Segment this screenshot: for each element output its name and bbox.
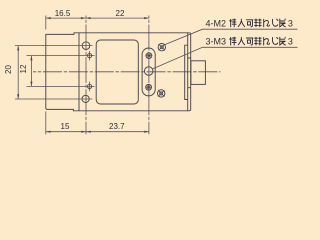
svg-text:12: 12 xyxy=(19,64,28,73)
rear panel seam xyxy=(78,33,80,111)
12 extension bottom xyxy=(27,85,95,87)
svg-text:3-M3: 3-M3 xyxy=(206,37,227,47)
flange ticks xyxy=(188,58,191,88)
svg-text:3: 3 xyxy=(288,19,293,29)
note line1 kanji: 挿入可能ねじ長 xyxy=(230,19,293,29)
bottom dimension line xyxy=(46,131,149,133)
top dimension line xyxy=(46,17,149,19)
obround plate xyxy=(142,48,155,96)
obround hole top xyxy=(146,53,152,59)
body outline xyxy=(46,33,191,111)
leader 3-M3 xyxy=(153,47,298,69)
boss rounded rect xyxy=(96,40,138,104)
body right face seam xyxy=(187,33,189,111)
svg-text:15: 15 xyxy=(61,122,70,131)
face hole A1 xyxy=(82,42,90,50)
horizontal center line xyxy=(33,71,221,73)
svg-text:23.7: 23.7 xyxy=(109,122,125,131)
12 extension top xyxy=(27,55,95,57)
20 extension top (into A1 crosshair) xyxy=(15,45,93,47)
extension line left bottom xyxy=(45,112,47,135)
20 extension bottom (into A2 crosshair) xyxy=(15,98,93,100)
vertical center line col A (x=86) xyxy=(85,16,87,135)
svg-text:22: 22 xyxy=(116,9,125,18)
svg-text:4-M2: 4-M2 xyxy=(206,18,227,28)
body right recess seam xyxy=(185,45,188,99)
svg-text:20: 20 xyxy=(4,65,13,74)
left dim 12 line xyxy=(30,56,32,87)
face hole A2 xyxy=(82,95,89,102)
face hole B2 xyxy=(88,84,92,88)
screw S1 top right xyxy=(158,44,165,51)
note line2 kanji: 挿入可能ねじ長 xyxy=(230,37,293,47)
vertical center line obround col (x=148.9) xyxy=(148,16,150,135)
svg-text:16.5: 16.5 xyxy=(55,9,71,18)
svg-text:3: 3 xyxy=(288,37,293,47)
obround hole middle xyxy=(144,67,153,76)
lens barrel xyxy=(191,61,206,85)
obround hole bottom xyxy=(146,84,152,90)
left dim 20 line xyxy=(17,46,19,99)
screw S2 bottom right xyxy=(158,90,165,97)
extension line left top xyxy=(45,16,47,30)
face hole B1 xyxy=(88,54,92,58)
leader 4-M2 xyxy=(165,29,298,45)
